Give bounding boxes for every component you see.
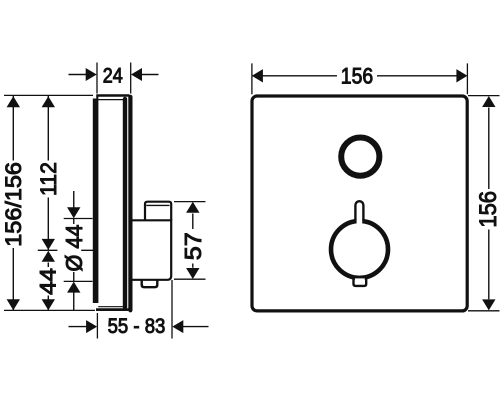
dimension 57: top arrowhead (186, 202, 199, 213)
dimension 55-83: right arrowhead (172, 320, 183, 333)
dimension 112: line (47, 96, 49, 250)
side view: escutcheon plate top edge (96, 94, 129, 96)
dimension 44: bottom arrowhead (42, 299, 55, 310)
dimension 156 right: top arrowhead (482, 96, 495, 107)
dimension dia44: top arrowhead (67, 207, 80, 218)
front view: handle pin (top marker) (355, 201, 363, 224)
dimension 44: label (35, 268, 60, 295)
dimension 44: line (47, 263, 49, 311)
svg-text:156: 156 (475, 191, 500, 228)
dimension dia44: line (73, 191, 75, 310)
dimension 156 top: extension lines (252, 63, 468, 94)
dimension 156/156: label (1, 162, 26, 247)
dimension 156 right: label (475, 191, 500, 228)
dimension 24: right arrowhead (131, 68, 142, 81)
dimension 156/156: bottom arrowhead (7, 299, 20, 310)
side view: front face band (128, 95, 132, 313)
svg-text:57: 57 (180, 232, 206, 260)
dimension 44: top arrowhead (42, 251, 55, 262)
front view: handle bottom tab (354, 277, 367, 286)
side view: handle bottom tab (142, 280, 158, 287)
dimension 24: arrow tails (69, 74, 159, 76)
front view: select handle circle (331, 221, 388, 278)
dimension 55-83: extension lines (97, 280, 172, 339)
dimension 156 top: line (253, 75, 466, 77)
dimension 57: label (180, 232, 206, 260)
dimension 112: bottom arrowhead (42, 239, 55, 250)
dimension 156 top: right arrowhead (456, 69, 467, 82)
front view: thermostat ring (341, 138, 379, 176)
side view: handle step inner line (146, 204, 169, 206)
dimension 57: extension lines (174, 202, 206, 280)
dimension 57: line (192, 214, 194, 268)
dimension 112: label (36, 162, 61, 196)
dimension 55-83: left arrowhead (86, 320, 97, 333)
side view: glass plate edge (inner front band) (123, 97, 127, 310)
dimension 156/156: top arrowhead (7, 96, 20, 107)
dimension 156 right: line (488, 108, 490, 300)
dimension 55-83: arrow tails (69, 326, 209, 328)
left extension line: plate top (4, 94, 93, 96)
svg-text:55 - 83: 55 - 83 (108, 315, 166, 338)
side view: handle step (top) (145, 202, 171, 221)
dimension 112: top arrowhead (42, 96, 55, 107)
side view: plate inner top line (98, 99, 123, 101)
svg-text:156: 156 (341, 63, 373, 88)
side view: plate bottom edge (96, 308, 130, 311)
dimension dia44: label (61, 224, 87, 271)
svg-text:Ø 44: Ø 44 (61, 224, 87, 271)
dimension 156 right: bottom arrowhead (482, 299, 495, 310)
dimension 156 top: left arrowhead (252, 69, 263, 82)
side view: plate inner bottom line (98, 306, 123, 308)
dimension dia44: bottom arrowhead (67, 282, 80, 293)
side view: wall/back edge of concealed body (93, 95, 99, 303)
svg-text:24: 24 (103, 64, 123, 87)
dimension 156/156: line (12, 96, 14, 310)
dimension dia44: extension lines (64, 219, 93, 282)
dimension 156 right: extension lines (468, 96, 500, 311)
dimension 57: bottom arrowhead (186, 268, 199, 279)
svg-text:112: 112 (36, 162, 61, 196)
front view: escutcheon square (252, 96, 467, 311)
dimension 24: left arrowhead (86, 68, 97, 81)
dimension 24: extension lines (97, 63, 131, 94)
extension line: handle axis (38, 249, 94, 251)
svg-text:156/156: 156/156 (1, 162, 26, 247)
side view: handle main body (129, 219, 172, 280)
left extension line: plate bottom (4, 309, 95, 311)
svg-text:44: 44 (35, 268, 60, 295)
